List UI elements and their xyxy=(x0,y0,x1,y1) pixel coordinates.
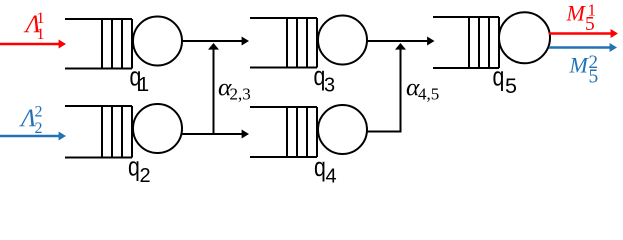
svg-text:2: 2 xyxy=(35,120,43,137)
svg-text:2: 2 xyxy=(140,165,151,187)
queue q3 buffer xyxy=(250,18,317,68)
wire q4 out with corner xyxy=(368,49,401,132)
queue q4 buffer xyxy=(250,107,317,157)
svg-text:1: 1 xyxy=(37,26,45,43)
label q3 xyxy=(314,62,336,96)
wire q3 out xyxy=(367,37,435,46)
svg-text:3: 3 xyxy=(324,74,335,96)
output arrow M5^1 (red wire) xyxy=(549,29,618,38)
svg-text:4: 4 xyxy=(326,165,337,187)
svg-text:5: 5 xyxy=(505,74,517,98)
svg-text:4,5: 4,5 xyxy=(418,85,439,104)
queue q2 server xyxy=(133,104,182,153)
label q2 xyxy=(128,153,151,187)
svg-text:2: 2 xyxy=(35,104,43,121)
svg-text:5: 5 xyxy=(589,67,599,88)
queue q1 server xyxy=(133,17,182,66)
svg-text:1: 1 xyxy=(138,74,149,96)
svg-text:1: 1 xyxy=(37,10,45,27)
input arrow Λ2 (blue wire) xyxy=(0,132,66,141)
wire q1 out xyxy=(182,37,249,46)
queue q3 server xyxy=(318,16,367,65)
svg-text:2,3: 2,3 xyxy=(230,85,251,104)
label alpha_4,5 xyxy=(406,73,439,104)
label M5^2 xyxy=(569,52,599,88)
queue q1 buffer xyxy=(65,19,132,69)
label q4 xyxy=(314,153,337,187)
label Λ2^2 xyxy=(19,104,43,138)
queue q4 server xyxy=(318,105,367,154)
label M5^1 xyxy=(566,1,597,35)
label alpha_2,3 xyxy=(218,73,251,104)
output arrow M5^2 (blue wire) xyxy=(549,43,617,52)
label q1 xyxy=(130,63,150,96)
junction wire alpha_4,5 arrowhead xyxy=(395,43,406,50)
queue q5 server xyxy=(499,12,550,63)
svg-text:q: q xyxy=(314,153,326,183)
svg-text:M: M xyxy=(569,53,590,78)
label q5 xyxy=(493,63,518,98)
svg-text:5: 5 xyxy=(585,14,595,35)
queue q2 buffer xyxy=(65,106,132,158)
junction wire alpha_2,3 (vertical) xyxy=(208,43,219,134)
label Λ1^1 xyxy=(24,10,45,43)
input arrow Λ1 (red wire) xyxy=(0,40,66,49)
svg-text:q: q xyxy=(128,153,140,183)
svg-text:M: M xyxy=(566,1,587,26)
queue q5 buffer xyxy=(433,17,499,68)
wire q2 out xyxy=(182,130,249,139)
svg-text:q: q xyxy=(493,63,505,93)
